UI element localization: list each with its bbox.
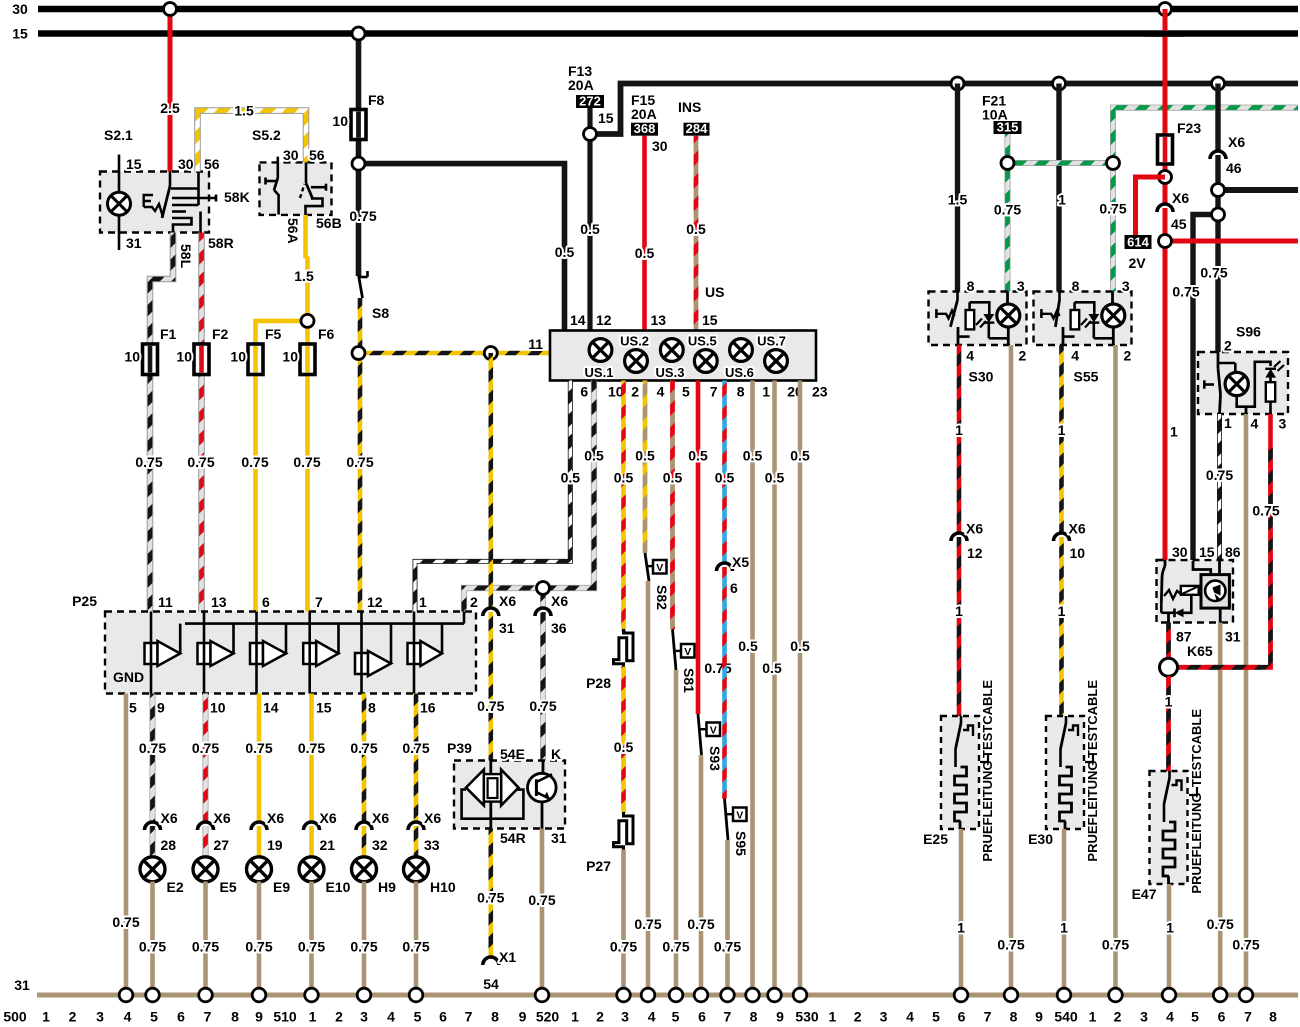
svg-text:F1: F1	[160, 326, 177, 342]
svg-text:X6: X6	[161, 810, 178, 826]
wire tan E30 to ground bus	[1062, 829, 1067, 995]
fuse F6	[300, 344, 315, 375]
svg-text:4: 4	[387, 1009, 395, 1025]
lamp H9	[352, 857, 377, 882]
fuse F5	[248, 344, 263, 375]
svg-text:10: 10	[230, 349, 246, 365]
connector X6 (E10)	[304, 822, 320, 830]
svg-text:6: 6	[958, 1009, 966, 1025]
svg-text:32: 32	[372, 837, 388, 853]
svg-text:8: 8	[967, 278, 975, 294]
svg-text:X6: X6	[499, 593, 516, 609]
wire black branch to K65 pin 15	[1193, 215, 1218, 562]
wire yellow/black P39 54R to connector X1	[488, 829, 493, 958]
wire red/black overdraw over tan verticals	[1205, 665, 1260, 670]
connector X6 (10)	[1054, 533, 1070, 541]
svg-text:0.5: 0.5	[790, 638, 810, 654]
heating element P27	[614, 812, 634, 850]
svg-text:X6: X6	[1069, 521, 1086, 537]
svg-text:1.5: 1.5	[234, 103, 254, 119]
svg-text:0.5: 0.5	[738, 638, 758, 654]
wire tan P39 31 to ground bus	[540, 829, 545, 996]
wire tan S30 pin 2 to ground bus	[1009, 345, 1014, 995]
wire tan E2 to ground bus	[150, 882, 155, 996]
svg-text:1.5: 1.5	[948, 192, 968, 208]
wire E2 feed from P25	[150, 694, 156, 823]
wire H9 feed from P25	[362, 694, 367, 823]
svg-text:0.75: 0.75	[529, 698, 556, 714]
wire red/black S30 pin 4 to E25	[957, 345, 962, 533]
svg-text:54R: 54R	[500, 830, 526, 846]
svg-text:9: 9	[255, 1009, 263, 1025]
wire tan S96 pin 4 to ground bus	[1244, 414, 1249, 995]
wire 56B yellow S5.2 to F6 and branch F5	[303, 215, 308, 258]
svg-text:46: 46	[1226, 160, 1242, 176]
svg-text:3: 3	[360, 1009, 368, 1025]
connector X6 (H9)	[356, 822, 372, 830]
wire red horizontal to page edge	[1165, 239, 1298, 244]
svg-text:2: 2	[1114, 1009, 1122, 1025]
svg-text:1: 1	[1170, 424, 1178, 440]
svg-text:0.75: 0.75	[350, 939, 377, 955]
svg-text:14: 14	[570, 312, 586, 328]
svg-text:36: 36	[551, 620, 567, 636]
fuse F1	[143, 344, 158, 375]
svg-text:4: 4	[1251, 416, 1259, 432]
svg-text:86: 86	[1225, 544, 1241, 560]
wire 58R gray/red to fuse F2 to P25 pin 13	[198, 233, 205, 612]
svg-text:E30: E30	[1028, 831, 1053, 847]
svg-text:4: 4	[657, 383, 665, 399]
svg-text:0.75: 0.75	[528, 892, 555, 908]
svg-text:2: 2	[854, 1009, 862, 1025]
svg-text:0.75: 0.75	[241, 454, 268, 470]
svg-text:8: 8	[737, 383, 745, 399]
svg-text:28: 28	[161, 837, 177, 853]
svg-text:1: 1	[1058, 192, 1066, 208]
svg-text:1: 1	[42, 1009, 50, 1025]
svg-text:E5: E5	[220, 879, 237, 895]
svg-text:3: 3	[621, 1009, 629, 1025]
svg-text:8: 8	[750, 1009, 758, 1025]
wire green/white up and right to page edge	[1113, 108, 1298, 163]
svg-text:7: 7	[1244, 1009, 1252, 1025]
svg-text:0.75: 0.75	[135, 454, 162, 470]
wire tan US pin 23 to ground bus	[798, 381, 803, 996]
control unit P39	[447, 740, 567, 846]
svg-text:7: 7	[315, 594, 323, 610]
lamp E9	[247, 857, 272, 882]
connector X6 (46)	[1210, 151, 1226, 159]
svg-text:F2: F2	[212, 326, 229, 342]
connector X1	[483, 957, 499, 965]
svg-text:30: 30	[1172, 544, 1188, 560]
svg-text:0.5: 0.5	[790, 448, 810, 464]
svg-text:30: 30	[178, 156, 194, 172]
svg-text:0.5: 0.5	[688, 448, 708, 464]
svg-text:5: 5	[414, 1009, 422, 1025]
svg-text:0.75: 0.75	[610, 939, 637, 955]
svg-text:0.75: 0.75	[402, 740, 429, 756]
svg-text:540: 540	[1054, 1009, 1078, 1025]
connector X6 (E2)	[145, 822, 161, 830]
svg-text:US.3: US.3	[656, 365, 685, 380]
svg-text:13: 13	[651, 312, 667, 328]
wire red/tan INS to US pin 15	[694, 136, 699, 331]
svg-text:1: 1	[1089, 1009, 1097, 1025]
connector X6 (12)	[951, 533, 967, 541]
svg-text:0.75: 0.75	[477, 890, 504, 906]
svg-text:6: 6	[262, 594, 270, 610]
wire tan US pin 1 to ground bus	[750, 381, 755, 996]
svg-text:1: 1	[1058, 422, 1066, 438]
wire black/white from P25 pin2 line junction down to P39 pin K	[540, 588, 546, 608]
svg-text:0.75: 0.75	[1200, 265, 1227, 281]
svg-text:0.5: 0.5	[555, 244, 575, 260]
svg-text:0.75: 0.75	[1172, 284, 1199, 300]
svg-text:4: 4	[966, 348, 974, 364]
svg-text:INS: INS	[678, 99, 701, 115]
wire tan S55 pin 2 to ground bus	[1113, 345, 1118, 995]
ground bus junction nodes	[119, 988, 133, 1002]
svg-text:F8: F8	[368, 92, 385, 108]
svg-text:S5.2: S5.2	[252, 127, 281, 143]
svg-text:0.75: 0.75	[139, 939, 166, 955]
wire tan S93 to ground bus	[699, 755, 704, 995]
wire black to S55 pin 8	[1056, 84, 1061, 293]
svg-text:0.75: 0.75	[192, 740, 219, 756]
svg-text:1: 1	[1224, 415, 1232, 431]
svg-text:P25: P25	[72, 593, 97, 609]
svg-text:56A: 56A	[285, 218, 301, 244]
wire red/black K65 87 to node to E47	[1166, 623, 1171, 660]
svg-text:0.75: 0.75	[298, 939, 325, 955]
svg-text:PRUEFLEITUNG: PRUEFLEITUNG	[1189, 792, 1204, 893]
svg-text:TESTCABLE: TESTCABLE	[1189, 709, 1204, 787]
wire bus 15 overdraw at red crossing	[1145, 31, 1185, 37]
svg-text:4: 4	[1166, 1009, 1174, 1025]
svg-text:P28: P28	[586, 675, 611, 691]
svg-text:E25: E25	[923, 831, 948, 847]
wire 56 yellow/white S2.1 to S5.2	[198, 111, 307, 172]
svg-text:54: 54	[483, 976, 499, 992]
svg-text:8: 8	[1072, 278, 1080, 294]
svg-text:7: 7	[984, 1009, 992, 1025]
wire tan P25 pin 5 to ground bus	[124, 694, 129, 996]
svg-text:315: 315	[997, 120, 1019, 135]
svg-text:56: 56	[309, 147, 325, 163]
svg-text:0.5: 0.5	[614, 470, 634, 486]
svg-text:0.75: 0.75	[402, 939, 429, 955]
svg-text:X6: X6	[551, 593, 568, 609]
svg-text:0.75: 0.75	[1099, 201, 1126, 217]
svg-text:S55: S55	[1074, 369, 1099, 385]
svg-text:X6: X6	[424, 810, 441, 826]
wire red/yellow P28 to P27	[621, 667, 626, 813]
svg-text:14: 14	[263, 700, 279, 716]
fuse F2	[194, 344, 209, 375]
svg-text:V: V	[736, 809, 743, 821]
svg-text:2: 2	[69, 1009, 77, 1025]
svg-text:1: 1	[955, 422, 963, 438]
svg-text:10: 10	[124, 349, 140, 365]
svg-text:30: 30	[652, 138, 668, 154]
wire black/white US pin 6 to P25 pin 1	[415, 381, 570, 612]
svg-text:4: 4	[1071, 348, 1079, 364]
svg-text:3: 3	[1279, 416, 1287, 432]
svg-text:0.75: 0.75	[245, 939, 272, 955]
svg-text:520: 520	[536, 1009, 560, 1025]
wire yellow/black horizontal S8 to US pin 11	[359, 351, 551, 356]
svg-text:15: 15	[1199, 544, 1215, 560]
svg-text:31: 31	[14, 977, 30, 993]
node below F23	[1159, 171, 1172, 184]
bus 30	[38, 6, 1298, 13]
svg-text:K: K	[551, 746, 561, 762]
svg-text:GND: GND	[113, 669, 144, 685]
svg-text:31: 31	[126, 235, 142, 251]
svg-text:6: 6	[698, 1009, 706, 1025]
svg-text:0.75: 0.75	[997, 937, 1024, 953]
svg-text:1: 1	[571, 1009, 579, 1025]
wire tan E47 to ground bus	[1167, 884, 1172, 995]
svg-text:3: 3	[1017, 278, 1025, 294]
wire red F23 overdraw over black/green horizontals	[1163, 60, 1168, 132]
svg-text:11: 11	[158, 594, 173, 610]
bus 15	[38, 30, 1298, 37]
wire red F15 to US pin 13	[642, 136, 647, 331]
wire tan S81 to ground bus	[674, 670, 679, 995]
wire black F13 junction up to top feed line	[590, 84, 1298, 135]
heating element P28	[614, 629, 634, 667]
wire red/yellow US pin 2 to P28	[621, 381, 626, 632]
wire tan E10 to ground bus	[309, 882, 314, 996]
svg-text:2: 2	[1124, 348, 1132, 364]
switch S81 with test point V	[673, 629, 677, 670]
svg-text:V: V	[684, 646, 691, 658]
wire tan E9 to ground bus	[257, 882, 262, 996]
svg-text:45: 45	[1171, 216, 1187, 232]
svg-text:0.75: 0.75	[687, 916, 714, 932]
svg-text:10: 10	[332, 113, 348, 129]
svg-text:4: 4	[648, 1009, 656, 1025]
svg-text:58K: 58K	[224, 189, 250, 205]
switch S8	[359, 276, 368, 279]
svg-text:284: 284	[686, 121, 708, 136]
svg-text:7: 7	[465, 1009, 473, 1025]
svg-text:5: 5	[129, 700, 137, 716]
svg-text:0.5: 0.5	[614, 739, 634, 755]
svg-text:2: 2	[1019, 348, 1027, 364]
svg-text:E10: E10	[326, 879, 351, 895]
wire tan E5 to ground bus	[203, 882, 208, 996]
svg-text:15: 15	[598, 110, 614, 126]
wire red US pin 7 to S93	[696, 381, 701, 715]
svg-text:US.2: US.2	[620, 334, 649, 349]
svg-text:US.7: US.7	[757, 334, 786, 349]
svg-text:15: 15	[12, 26, 28, 42]
svg-text:X6: X6	[966, 521, 983, 537]
node branch to P39	[484, 347, 497, 360]
switch S93 with test point V	[698, 714, 702, 755]
wire red horizontal overdraw over black verticals	[1183, 239, 1232, 244]
heated element E30 with test lead	[1046, 716, 1084, 829]
svg-text:2: 2	[631, 383, 639, 399]
wire tan/yellow US pin 4 to S82	[643, 381, 648, 554]
svg-text:12: 12	[367, 594, 383, 610]
wire green/white down to S55 pin 3	[1110, 163, 1116, 292]
svg-text:8: 8	[231, 1009, 239, 1025]
wire tan K65 31 to ground bus	[1218, 623, 1223, 996]
svg-text:4: 4	[124, 1009, 132, 1025]
svg-text:S2.1: S2.1	[104, 127, 133, 143]
svg-text:E2: E2	[167, 879, 184, 895]
wire tan H9 to ground bus	[362, 882, 367, 996]
svg-text:0.75: 0.75	[1206, 467, 1233, 483]
wire black/white S96 pin 1 to K65 pin 86	[1217, 414, 1222, 561]
wire black F13 to US pin 12	[587, 108, 592, 331]
svg-text:0.5: 0.5	[715, 470, 735, 486]
svg-text:0.75: 0.75	[477, 698, 504, 714]
lamp unit US (US.1-US.7)	[550, 331, 816, 381]
wire red branch to connector 614	[1136, 177, 1166, 236]
svg-text:PRUEFLEITUNG: PRUEFLEITUNG	[1085, 760, 1100, 861]
node F13 junction	[584, 128, 597, 141]
svg-text:31: 31	[551, 830, 567, 846]
svg-text:9: 9	[1035, 1009, 1043, 1025]
svg-text:3: 3	[1122, 278, 1130, 294]
svg-text:E47: E47	[1132, 886, 1157, 902]
svg-text:0.5: 0.5	[584, 448, 604, 464]
svg-text:US.6: US.6	[725, 365, 754, 380]
svg-text:0.75: 0.75	[245, 740, 272, 756]
svg-text:0.75: 0.75	[192, 939, 219, 955]
svg-text:54E: 54E	[500, 746, 525, 762]
svg-text:5: 5	[682, 383, 690, 399]
lamp E5	[193, 857, 218, 882]
svg-text:6: 6	[1218, 1009, 1226, 1025]
svg-text:27: 27	[214, 837, 230, 853]
wire tan P27 to ground bus	[621, 850, 626, 996]
wire black horizontal to page edge	[1218, 187, 1298, 193]
coordinate ruler	[3, 1009, 1277, 1025]
svg-text:US: US	[705, 284, 724, 300]
wire tan S82 to ground bus	[646, 581, 651, 995]
node S8/horizontal	[352, 347, 365, 360]
svg-text:7: 7	[204, 1009, 212, 1025]
svg-text:S96: S96	[1236, 323, 1261, 339]
svg-text:9: 9	[519, 1009, 527, 1025]
switch/lamp unit S96	[1198, 323, 1288, 414]
svg-text:0.5: 0.5	[765, 470, 785, 486]
svg-text:6: 6	[730, 580, 738, 596]
node junction on pin10 wire	[537, 582, 550, 595]
svg-text:6: 6	[177, 1009, 185, 1025]
lamp E10	[299, 857, 324, 882]
svg-text:S93: S93	[707, 746, 723, 771]
svg-text:19: 19	[267, 837, 283, 853]
connector X6 (E9)	[251, 822, 267, 830]
svg-text:23: 23	[812, 383, 828, 399]
svg-text:614: 614	[1127, 235, 1149, 250]
svg-text:0.5: 0.5	[635, 245, 655, 261]
svg-text:8: 8	[1010, 1009, 1018, 1025]
switch S2.1	[100, 127, 250, 251]
svg-text:1: 1	[1166, 920, 1174, 936]
svg-text:X1: X1	[499, 949, 516, 965]
svg-text:5: 5	[672, 1009, 680, 1025]
wire E5 feed from P25	[203, 694, 209, 823]
node F8/pin14 feed	[352, 157, 365, 170]
svg-text:1: 1	[419, 594, 427, 610]
svg-text:0.75: 0.75	[298, 740, 325, 756]
wire black feed to US pin 14	[359, 164, 565, 331]
svg-text:X6: X6	[320, 810, 337, 826]
connector X5	[717, 563, 733, 571]
svg-text:H9: H9	[378, 879, 396, 895]
svg-text:8: 8	[491, 1009, 499, 1025]
svg-text:7: 7	[724, 1009, 732, 1025]
switch S95 with test point V	[725, 799, 729, 840]
svg-text:0.75: 0.75	[1207, 916, 1234, 932]
fuse F23	[1158, 135, 1173, 164]
wire black/white US pin 10 to P25 pin 2	[464, 381, 594, 612]
wire red/tan US pin 5 to S81	[670, 381, 675, 630]
svg-text:9: 9	[776, 1009, 784, 1025]
svg-text:0.75: 0.75	[349, 208, 376, 224]
svg-text:H10: H10	[430, 879, 456, 895]
svg-text:12: 12	[596, 312, 612, 328]
wire red 2.5 bus30 to S2.1	[168, 9, 173, 172]
svg-text:10: 10	[210, 700, 226, 716]
svg-text:510: 510	[273, 1009, 297, 1025]
svg-text:9: 9	[157, 700, 165, 716]
svg-text:P27: P27	[586, 858, 611, 874]
wire tan H10 to ground bus	[414, 882, 419, 996]
ground distributor P25	[72, 593, 476, 694]
connector X6 (H10)	[408, 822, 424, 830]
svg-text:US.5: US.5	[688, 334, 717, 349]
svg-text:33: 33	[424, 837, 440, 853]
svg-text:500: 500	[3, 1009, 27, 1025]
svg-text:15: 15	[126, 156, 142, 172]
connector X6 (54E feed)	[483, 608, 499, 616]
wire yellow/black S55 pin 4 to E30	[1059, 345, 1064, 533]
svg-text:3: 3	[1140, 1009, 1148, 1025]
svg-text:58R: 58R	[208, 235, 234, 251]
svg-text:3: 3	[96, 1009, 104, 1025]
switch unit S30	[929, 292, 1027, 346]
svg-text:1: 1	[1165, 693, 1173, 709]
svg-text:1.5: 1.5	[294, 268, 314, 284]
svg-text:58L: 58L	[178, 244, 194, 269]
svg-text:0.75: 0.75	[346, 454, 373, 470]
wire tan US pin 20 to ground bus	[772, 381, 777, 996]
node bus30/S2.1 wire	[164, 3, 177, 16]
relay K65	[1157, 544, 1241, 659]
svg-text:5: 5	[150, 1009, 158, 1025]
svg-text:X6: X6	[267, 810, 284, 826]
svg-text:3: 3	[880, 1009, 888, 1025]
svg-text:20A: 20A	[568, 77, 594, 93]
svg-text:0.75: 0.75	[350, 740, 377, 756]
svg-text:E9: E9	[273, 879, 290, 895]
svg-text:0.75: 0.75	[187, 454, 214, 470]
switch unit S55	[1034, 292, 1132, 346]
svg-text:15: 15	[702, 312, 718, 328]
svg-text:8: 8	[1269, 1009, 1277, 1025]
svg-text:PRUEFLEITUNG: PRUEFLEITUNG	[980, 760, 995, 861]
